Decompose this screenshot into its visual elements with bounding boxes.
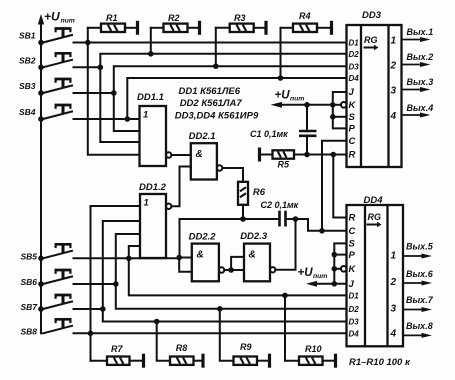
node R5-C1 junction bbox=[304, 152, 310, 158]
wire clock to C inputs bbox=[296, 219, 347, 231]
wire DD2.1 out to R6 bbox=[222, 168, 243, 182]
svg-text:Вых.5: Вых.5 bbox=[406, 242, 434, 252]
svg-text:DD1 К561ЛЕ6: DD1 К561ЛЕ6 bbox=[179, 86, 241, 97]
svg-text:D2: D2 bbox=[349, 50, 360, 59]
svg-text:2: 2 bbox=[390, 277, 397, 288]
svg-text:DD2.2: DD2.2 bbox=[189, 232, 217, 243]
svg-text:пит: пит bbox=[290, 96, 304, 103]
node SB6 junction bbox=[113, 281, 119, 287]
node SB5 junction bbox=[126, 255, 132, 261]
svg-text:SB8: SB8 bbox=[21, 326, 38, 336]
wire D4 riser bbox=[127, 78, 346, 119]
terminal bar R9 bbox=[268, 354, 271, 368]
node R2-D2 junction bbox=[148, 51, 154, 57]
svg-text:DD1.2: DD1.2 bbox=[139, 182, 167, 193]
svg-text:DD2.3: DD2.3 bbox=[240, 231, 268, 242]
svg-text:S: S bbox=[349, 112, 356, 123]
wire DD1.1 out to DD2.1 in1 bbox=[171, 154, 190, 156]
svg-text:D4: D4 bbox=[349, 74, 360, 83]
svg-text:R9: R9 bbox=[240, 342, 252, 352]
svg-text:DD2 К561ЛА7: DD2 К561ЛА7 bbox=[180, 98, 243, 109]
terminal bar R10 bbox=[334, 354, 337, 368]
node R3-D3 junction bbox=[213, 63, 219, 69]
node bracket K junction bbox=[330, 102, 336, 108]
svg-text:R8: R8 bbox=[176, 343, 188, 353]
svg-text:R7: R7 bbox=[111, 344, 123, 354]
svg-text:+U: +U bbox=[298, 267, 314, 279]
svg-text:J: J bbox=[349, 87, 355, 98]
wire +Upit rail bbox=[40, 20, 42, 333]
wire SB7 to DD1.2 input2 bbox=[103, 221, 140, 309]
gate DD1.1 bbox=[140, 106, 167, 166]
node bracket J junction DD4 bbox=[332, 281, 338, 287]
svg-text:пит: пит bbox=[61, 18, 75, 25]
svg-text:D1: D1 bbox=[349, 292, 360, 301]
wire SB1 to DD1.1 input4 bbox=[88, 43, 140, 155]
svg-text:3: 3 bbox=[391, 303, 397, 314]
svg-text:P: P bbox=[349, 250, 356, 261]
svg-text:&: & bbox=[196, 149, 203, 160]
svg-text:R1–R10 100 к: R1–R10 100 к bbox=[349, 357, 411, 368]
svg-text:2: 2 bbox=[390, 60, 397, 71]
svg-text:Вых.1: Вых.1 bbox=[407, 27, 434, 37]
svg-text:R6: R6 bbox=[253, 187, 266, 198]
wire SB8/D4 line bbox=[74, 332, 347, 334]
terminal bar R5 bbox=[258, 148, 261, 162]
wire D1 line SB1 to DD3 bbox=[74, 42, 347, 44]
svg-text:Вых.7: Вых.7 bbox=[406, 295, 434, 305]
svg-text:K: K bbox=[349, 100, 357, 111]
gate DD1.2 bbox=[140, 194, 166, 258]
gate DD2.1 bbox=[191, 143, 217, 179]
wire SB3 output bbox=[74, 92, 114, 94]
gate DD2.3 input bracket bbox=[228, 267, 234, 273]
svg-text:S: S bbox=[349, 239, 356, 250]
node R10-D1 junction bbox=[282, 293, 288, 299]
svg-text:SB5: SB5 bbox=[21, 251, 38, 261]
gate DD2.2 output bubble bbox=[219, 267, 224, 272]
svg-text:R4: R4 bbox=[299, 11, 311, 21]
svg-text:Вых.4: Вых.4 bbox=[407, 103, 434, 113]
terminal bar R2 bbox=[198, 21, 201, 35]
svg-text:D1: D1 bbox=[349, 39, 360, 48]
wire DD4 SPKJ bracket bbox=[334, 243, 346, 283]
wire R5 to DD3 R bbox=[294, 154, 347, 156]
svg-text:P: P bbox=[349, 124, 356, 135]
power +Upit arrow bbox=[38, 14, 44, 25]
svg-text:&: & bbox=[197, 250, 204, 261]
terminal bar R8 bbox=[201, 354, 204, 368]
wire SB2 to DD1.1 input3 bbox=[100, 67, 139, 142]
svg-text:Вых.8: Вых.8 bbox=[406, 321, 433, 331]
node R1-SB1 junction bbox=[85, 40, 91, 46]
svg-text:D4: D4 bbox=[349, 330, 360, 339]
gate DD2.2 bbox=[192, 244, 219, 282]
gate DD1.2 output bubble bbox=[166, 204, 171, 209]
svg-text:R: R bbox=[349, 150, 356, 161]
pin DD3 K bubble bbox=[341, 102, 347, 108]
wire SB7 output bbox=[74, 308, 103, 310]
svg-text:J: J bbox=[349, 279, 355, 290]
wire B-D3 line bbox=[103, 309, 347, 322]
svg-text:DD3: DD3 bbox=[362, 10, 382, 21]
svg-text:C: C bbox=[349, 226, 356, 237]
svg-text:SB2: SB2 bbox=[19, 55, 36, 65]
node SB2 junction bbox=[98, 65, 104, 71]
power +Upit feed bottom bbox=[306, 281, 317, 287]
node bracket P junction bbox=[332, 252, 338, 258]
svg-text:R10: R10 bbox=[305, 344, 322, 354]
svg-text:&: & bbox=[249, 250, 256, 261]
terminal bar R3 bbox=[264, 21, 267, 35]
wire B-D2 line bbox=[116, 284, 347, 309]
wire R line to DD4 R bbox=[333, 155, 346, 218]
wire SB8 to DD1.2 input1 bbox=[91, 206, 141, 333]
svg-text:R5: R5 bbox=[278, 160, 290, 170]
svg-text:D3: D3 bbox=[349, 318, 360, 327]
node SB3 junction bbox=[111, 90, 117, 96]
node SB7 junction bbox=[100, 306, 106, 312]
wire SB6 to DD1.2 input3 bbox=[116, 234, 140, 284]
wire SB5 output bbox=[74, 257, 180, 259]
node R9-D2 junction bbox=[217, 306, 223, 312]
svg-text:3: 3 bbox=[391, 85, 397, 96]
wire SB3 to DD1.1 input2 bbox=[114, 93, 140, 131]
gate DD2.3 output bubble bbox=[270, 267, 275, 272]
svg-text:DD2.1: DD2.1 bbox=[189, 131, 216, 142]
power +Upit feed top bbox=[271, 102, 283, 108]
svg-text:C2 0,1мк: C2 0,1мк bbox=[261, 200, 299, 210]
wire node line to C2 bbox=[180, 218, 279, 220]
gate DD2.2 input bracket bbox=[176, 255, 182, 261]
gate DD2.1 output bubble bbox=[217, 165, 222, 170]
wire C line DD3 bbox=[322, 141, 347, 231]
wire SB2 output bbox=[74, 66, 101, 68]
node SB8 junction bbox=[88, 331, 94, 337]
wire D2 riser bbox=[100, 54, 346, 68]
svg-text:Вых.3: Вых.3 bbox=[407, 77, 434, 87]
svg-text:RG: RG bbox=[368, 212, 382, 222]
node clock junction bbox=[319, 228, 325, 234]
wire SB6 output bbox=[74, 283, 116, 285]
svg-text:SB6: SB6 bbox=[21, 277, 38, 287]
svg-text:пит: пит bbox=[313, 273, 327, 280]
IC DD3 box bbox=[347, 25, 402, 167]
wire R6 bottom bbox=[242, 205, 244, 219]
node C1 top junction bbox=[304, 102, 310, 108]
gate DD1.1 output bubble bbox=[166, 152, 171, 157]
resistor R6 bbox=[238, 182, 248, 205]
node C2-clock junction bbox=[293, 216, 299, 222]
node bracket K junction DD4 bbox=[332, 266, 338, 272]
wire node line down to DD2.2 bbox=[179, 219, 181, 258]
node R8-D3 junction bbox=[154, 319, 160, 325]
wire DD3 JKSP bracket bbox=[333, 92, 347, 128]
wire SB4 output bbox=[74, 118, 140, 120]
svg-text:1: 1 bbox=[143, 110, 148, 121]
gate DD2.3 bbox=[244, 244, 270, 282]
svg-text:D2: D2 bbox=[349, 305, 360, 314]
svg-text:4: 4 bbox=[390, 328, 397, 339]
terminal bar R7 bbox=[142, 354, 145, 368]
IC DD4 box bbox=[347, 205, 404, 346]
svg-text:+U: +U bbox=[275, 90, 291, 102]
wire SB5 to DD1.2 input4 bbox=[129, 246, 140, 258]
node R4-D4 junction bbox=[278, 75, 284, 81]
pin DD4 K bubble bbox=[341, 266, 347, 272]
node R line junction bbox=[331, 152, 337, 158]
svg-text:Вых.6: Вых.6 bbox=[406, 269, 434, 279]
svg-text:D3: D3 bbox=[349, 62, 360, 71]
svg-text:1: 1 bbox=[391, 35, 397, 46]
svg-text:R1: R1 bbox=[106, 13, 118, 23]
node R6 bottom junction bbox=[240, 216, 246, 222]
svg-text:R: R bbox=[349, 213, 356, 224]
svg-text:DD1.1: DD1.1 bbox=[137, 92, 164, 103]
wire DD2.2 out to DD2.3 bbox=[224, 269, 231, 271]
svg-text:1: 1 bbox=[144, 198, 149, 209]
svg-text:1: 1 bbox=[391, 250, 397, 261]
terminal bar R4 bbox=[330, 21, 333, 35]
node bracket S junction bbox=[330, 114, 336, 120]
svg-text:SB1: SB1 bbox=[19, 31, 36, 41]
svg-text:Вых.2: Вых.2 bbox=[407, 52, 434, 62]
terminal bar R1 bbox=[136, 21, 139, 35]
svg-text:C1 0,1мк: C1 0,1мк bbox=[250, 129, 288, 139]
svg-text:SB7: SB7 bbox=[21, 302, 39, 312]
svg-text:+U: +U bbox=[44, 10, 60, 24]
wire B-D1 line bbox=[129, 258, 347, 295]
svg-text:SB3: SB3 bbox=[19, 81, 36, 91]
wire DD1.2 out to DD2.1 in2 bbox=[171, 167, 190, 207]
svg-text:4: 4 bbox=[390, 111, 397, 122]
svg-text:DD3,DD4 К561ИР9: DD3,DD4 К561ИР9 bbox=[175, 111, 259, 122]
wire D3 riser bbox=[114, 66, 347, 93]
svg-text:R3: R3 bbox=[234, 13, 246, 23]
svg-text:C: C bbox=[349, 136, 356, 147]
svg-text:R2: R2 bbox=[168, 13, 180, 23]
wire DD2.3 out clock riser bbox=[275, 219, 295, 270]
svg-text:SB4: SB4 bbox=[19, 107, 36, 117]
node SB4 junction bbox=[125, 116, 131, 122]
svg-text:RG: RG bbox=[364, 35, 378, 45]
svg-text:K: K bbox=[349, 264, 357, 275]
